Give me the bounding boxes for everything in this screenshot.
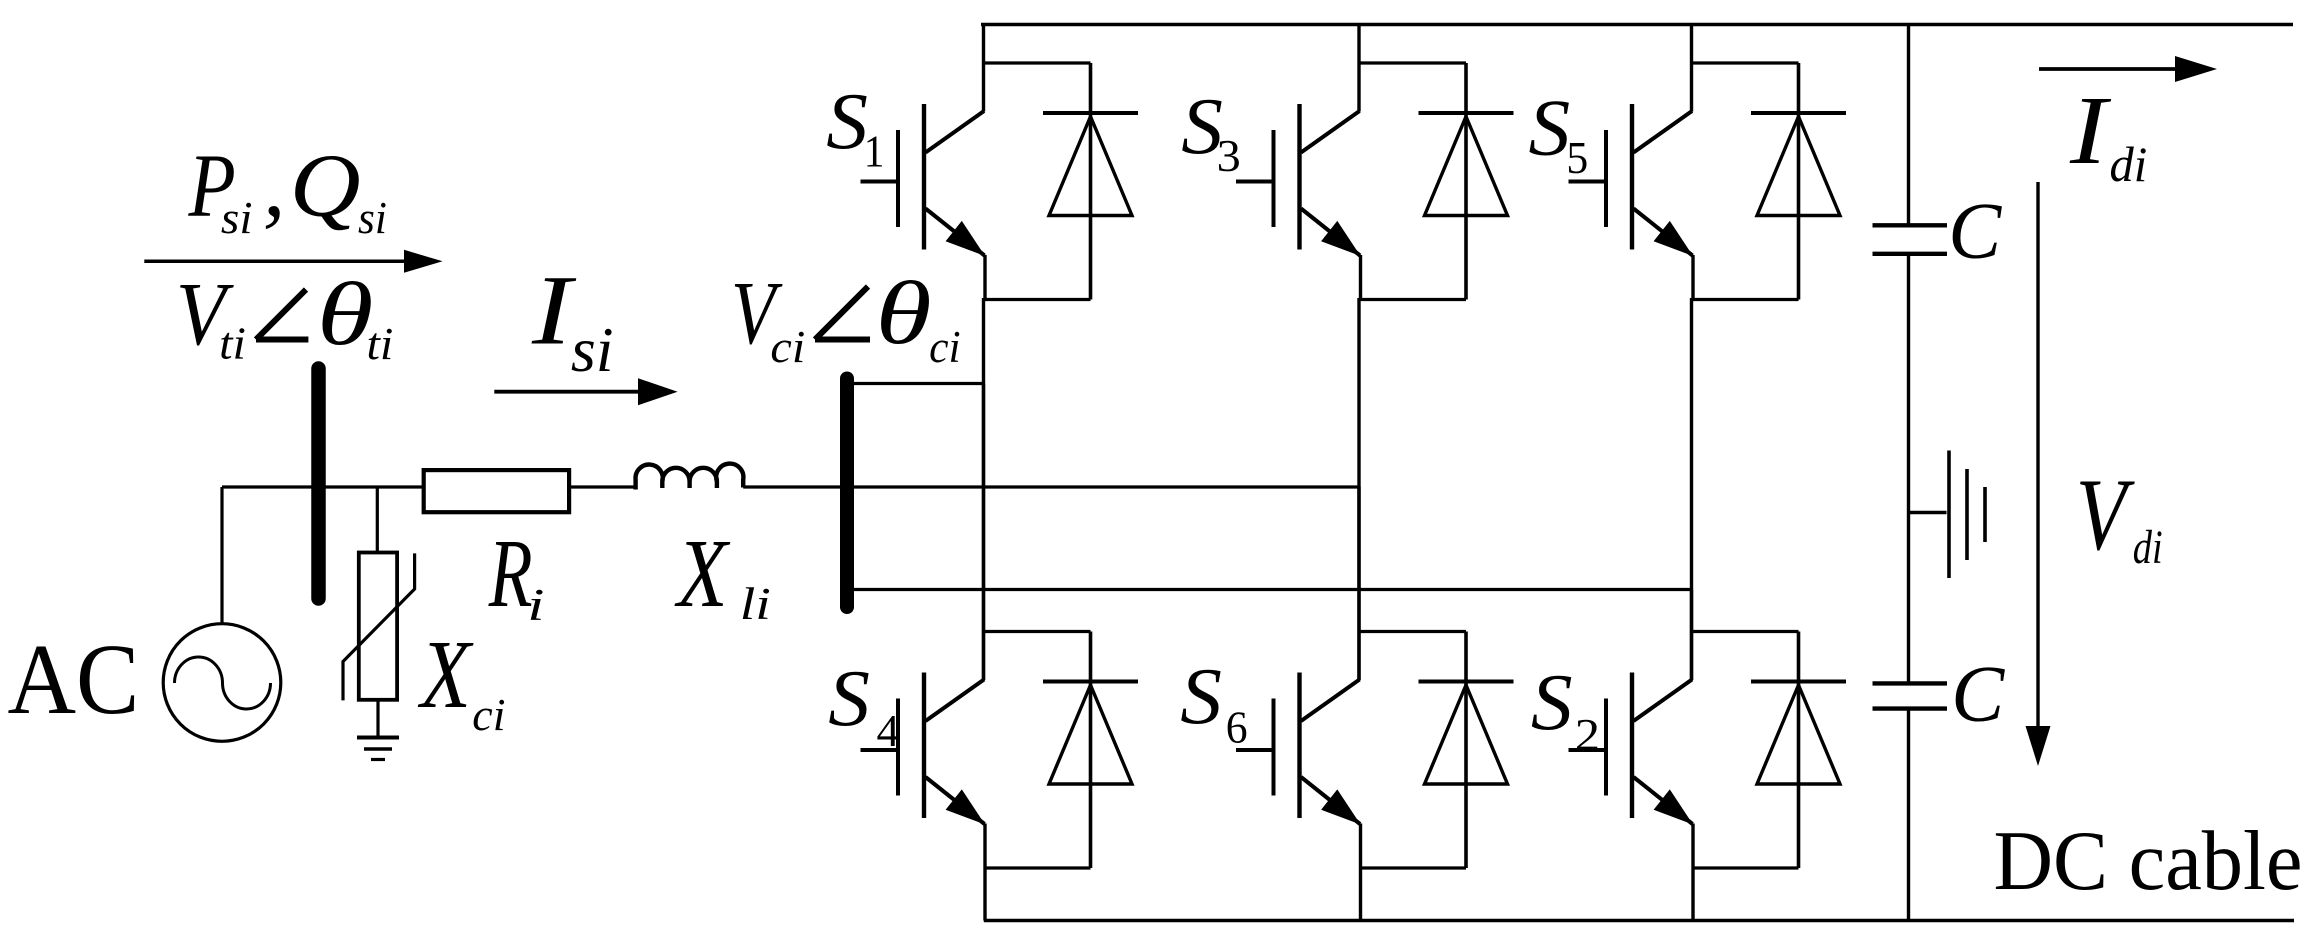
diode of S1 (antiparallel) bbox=[984, 63, 1139, 300]
transistor S5 (IGBT) bbox=[1569, 25, 1694, 301]
svg-text:V: V bbox=[2076, 458, 2136, 572]
wire DC link vertical bbox=[1907, 25, 1910, 921]
svg-text:S: S bbox=[1529, 83, 1571, 173]
svg-text:ci: ci bbox=[770, 322, 805, 373]
svg-text:DC cable: DC cable bbox=[1994, 814, 2303, 908]
svg-text:θ: θ bbox=[317, 265, 374, 364]
svg-text:S: S bbox=[826, 76, 868, 166]
svg-text:I: I bbox=[2069, 77, 2112, 184]
svg-text:3: 3 bbox=[1217, 131, 1241, 182]
transistor S4 (IGBT) bbox=[861, 384, 986, 921]
wire phase A (bus to leg 1) bbox=[848, 382, 985, 385]
svg-text:ti: ti bbox=[367, 319, 394, 370]
svg-text:C: C bbox=[1948, 187, 2002, 276]
capacitor C (bottom) bbox=[1873, 683, 1948, 708]
svg-text:6: 6 bbox=[1226, 701, 1248, 752]
svg-text:X: X bbox=[675, 521, 731, 628]
capacitor C (top) bbox=[1873, 225, 1948, 254]
wire leg C midpoint vertical bbox=[1690, 298, 1693, 680]
svg-text:C: C bbox=[1951, 650, 2005, 739]
arrow I_si bbox=[494, 378, 677, 405]
svg-text:,: , bbox=[263, 137, 286, 236]
wire leg B midpoint vertical bbox=[1357, 298, 1360, 680]
svg-text:S: S bbox=[1531, 657, 1573, 747]
svg-text:1: 1 bbox=[864, 126, 885, 176]
diode of S6 (antiparallel) bbox=[1359, 632, 1514, 869]
svg-text:i: i bbox=[527, 579, 544, 630]
arrow P,Q power flow bbox=[144, 250, 442, 273]
wire phase C (bus to leg 3) bbox=[848, 588, 1693, 591]
filter reactance X_ci bbox=[343, 553, 415, 701]
svg-text:ci: ci bbox=[929, 321, 961, 372]
resistor R_i bbox=[424, 470, 569, 512]
angle symbol (V_ti) bbox=[256, 290, 308, 340]
wire DC- bottom rail bbox=[984, 919, 2294, 922]
ground (DC midpoint) bbox=[1909, 451, 1986, 579]
svg-text:X: X bbox=[418, 622, 474, 729]
ground (below X_ci) bbox=[357, 738, 399, 760]
bus bar V_ti bbox=[311, 369, 326, 599]
svg-text:2: 2 bbox=[1575, 710, 1600, 760]
svg-text:5: 5 bbox=[1566, 132, 1588, 183]
transistor S3 (IGBT) bbox=[1236, 25, 1361, 301]
svg-text:di: di bbox=[2133, 521, 2163, 574]
svg-text:si: si bbox=[221, 192, 253, 243]
wire leg A midpoint vertical bbox=[982, 298, 985, 680]
svg-text:AC: AC bbox=[8, 624, 140, 735]
diode of S2 (antiparallel) bbox=[1692, 632, 1847, 869]
diode of S5 (antiparallel) bbox=[1692, 63, 1847, 300]
svg-text:Q: Q bbox=[290, 136, 361, 235]
angle symbol (V_ci) bbox=[815, 287, 870, 340]
svg-text:R: R bbox=[488, 521, 533, 628]
AC source bbox=[163, 624, 281, 742]
inductor X_li bbox=[636, 464, 744, 490]
wire: main AC horizontal bbox=[222, 485, 1361, 488]
bus bar V_ci bbox=[840, 379, 854, 608]
wire: AC source drop bbox=[220, 487, 223, 624]
svg-text:si: si bbox=[358, 192, 387, 244]
wire DC+ top rail bbox=[981, 23, 2293, 26]
svg-text:li: li bbox=[740, 579, 771, 630]
svg-text:θ: θ bbox=[876, 263, 932, 363]
svg-text:I: I bbox=[531, 254, 576, 365]
transistor S1 (IGBT) bbox=[861, 25, 986, 301]
transistor S2 (IGBT) bbox=[1569, 590, 1694, 921]
svg-text:ci: ci bbox=[472, 689, 505, 740]
svg-text:si: si bbox=[571, 314, 614, 385]
svg-text:di: di bbox=[2110, 136, 2148, 192]
svg-text:S: S bbox=[1180, 651, 1222, 741]
arrow V_di bbox=[2026, 182, 2051, 766]
svg-text:4: 4 bbox=[877, 705, 900, 756]
wire: X_ci drop bbox=[376, 487, 379, 553]
svg-text:S: S bbox=[828, 653, 870, 743]
wire: X_ci to ground bbox=[376, 700, 379, 736]
svg-text:ti: ti bbox=[219, 318, 246, 369]
diode of S3 (antiparallel) bbox=[1359, 63, 1514, 300]
arrow I_di bbox=[2039, 56, 2217, 82]
transistor S6 (IGBT) bbox=[1236, 487, 1361, 921]
diode of S4 (antiparallel) bbox=[984, 632, 1139, 869]
